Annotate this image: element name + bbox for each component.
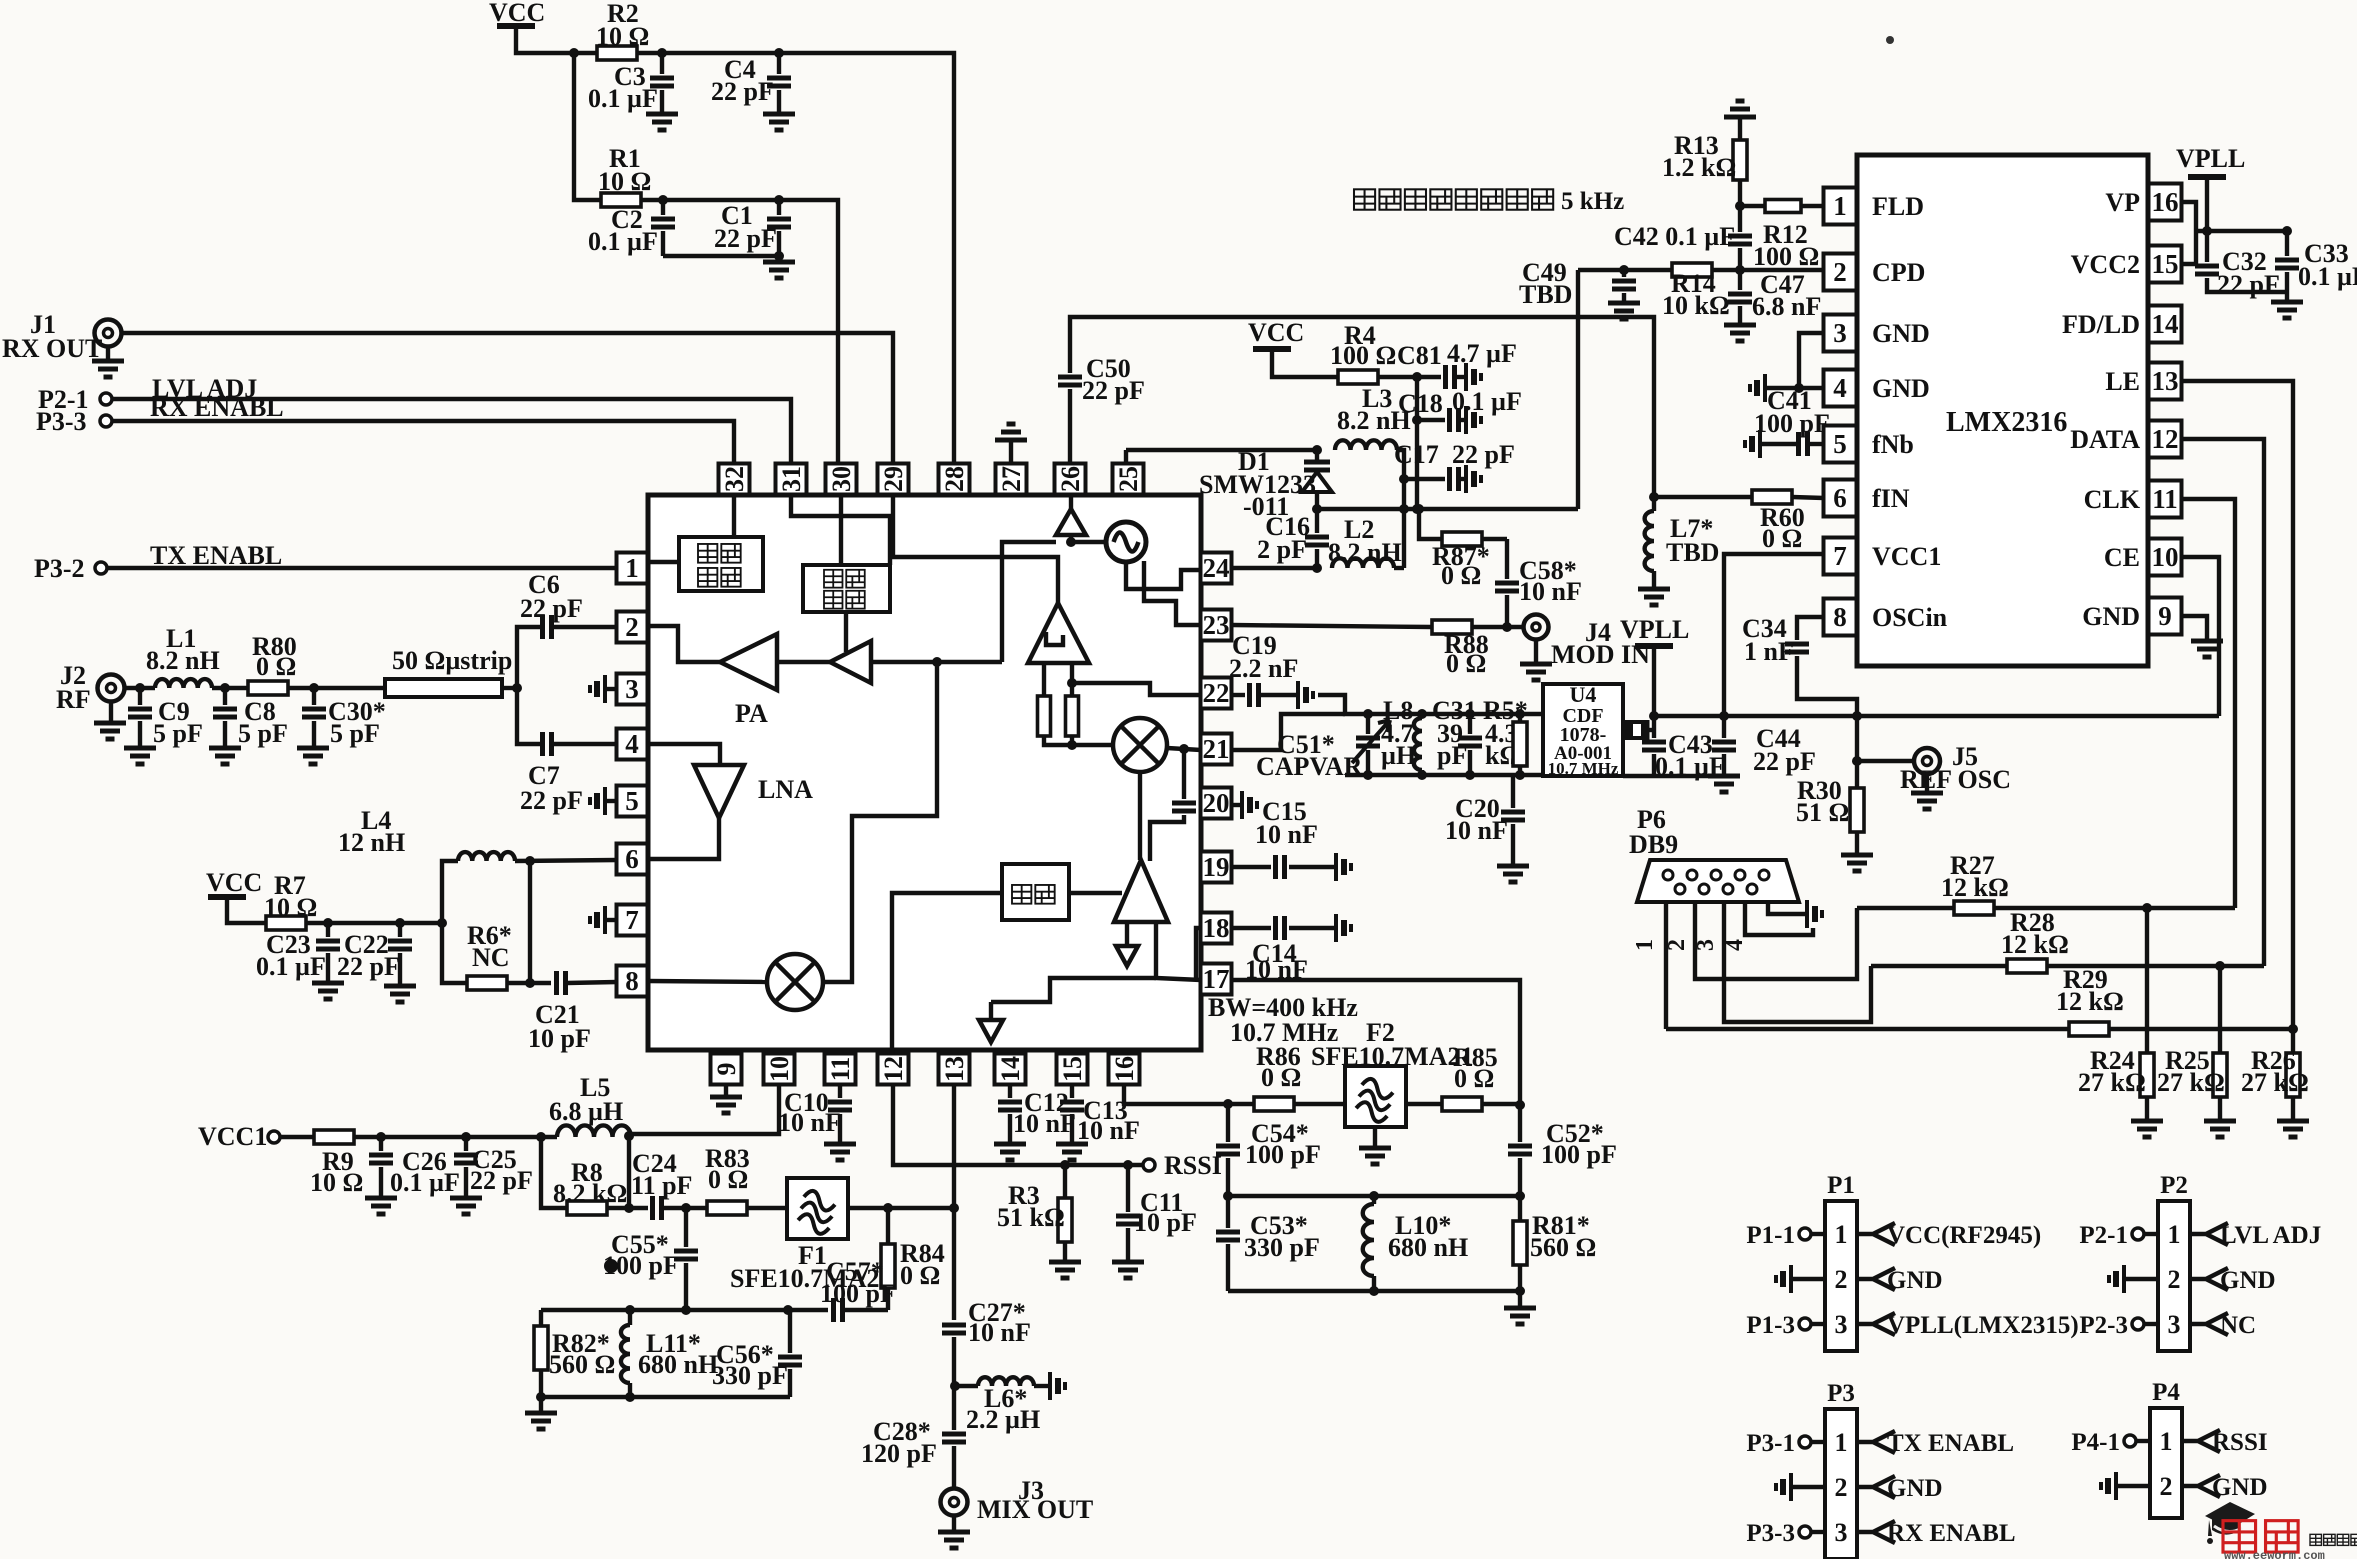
wire osc to pin24 [1126, 562, 1201, 589]
wire C56 lower lead [788, 1369, 792, 1397]
pin 11 LMX2316 [2149, 481, 2182, 518]
svg-text:5 pF: 5 pF [330, 719, 380, 748]
junction R8 right [624, 1203, 634, 1213]
wire pin3 bypass stub [607, 687, 617, 691]
wire C43-C44 bottoms [1623, 774, 1724, 778]
svg-text:22 pF: 22 pF [1082, 376, 1145, 405]
wire L4 left leg down [442, 923, 467, 983]
wire rail to VCC1 pin7 [1724, 554, 1824, 716]
junction D1 top [1312, 445, 1322, 455]
wire pin30 to gain box [839, 495, 843, 565]
svg-text:6: 6 [625, 844, 639, 874]
ground C22 [384, 986, 416, 1002]
wire pin2 to PA [648, 626, 720, 662]
svg-text:C17: C17 [1394, 440, 1439, 469]
junction rail C44 [1719, 711, 1729, 721]
wire R29 row left [1666, 1027, 2068, 1031]
diode D1 varactor [1304, 462, 1330, 470]
resistor R9 [314, 1130, 354, 1144]
bypass cap C7 pin5 [603, 787, 607, 815]
svg-text:100 Ω: 100 Ω [1753, 242, 1819, 271]
svg-text:3: 3 [625, 674, 639, 704]
resistor R28 [2007, 959, 2047, 973]
pin 11 RF2945 [825, 1054, 856, 1085]
svg-text:0 Ω: 0 Ω [900, 1261, 940, 1290]
amplifier limiter [1028, 603, 1089, 663]
svg-text:NC: NC [2220, 1312, 2256, 1339]
wire P4 gnd row [2118, 1484, 2150, 1488]
junction tank R5 [1515, 709, 1525, 719]
svg-text:2: 2 [1664, 939, 1690, 951]
resistor R25 [2213, 1053, 2227, 1097]
svg-text:www.eeworm.com: www.eeworm.com [2224, 1549, 2325, 1559]
wire R28 row right [2048, 964, 2264, 968]
ground C13 [1056, 1144, 1088, 1160]
resistor R85 [1442, 1097, 1482, 1111]
svg-text:P4: P4 [2152, 1379, 2180, 1406]
svg-text:10 kΩ: 10 kΩ [1662, 291, 1730, 320]
wire C2-C1 bottoms [663, 256, 779, 262]
junction R6 right [525, 978, 535, 988]
junction C49 [1619, 265, 1629, 275]
bypass cap pin22 [1296, 681, 1300, 709]
resistor R30 [1850, 788, 1864, 832]
svg-text:P4-1: P4-1 [2071, 1429, 2120, 1456]
wire L10 lower lead [1372, 1276, 1376, 1291]
svg-text:9: 9 [712, 1063, 741, 1076]
svg-text:1: 1 [2160, 1427, 2173, 1456]
svg-text:GND: GND [1887, 1475, 1943, 1502]
junction pin3 pin4 [1794, 383, 1804, 393]
wire tank gnd stub [1518, 1291, 1522, 1308]
resistor R2 [597, 46, 637, 60]
capacitor C53* [1216, 1232, 1240, 1240]
junction C30 top [309, 683, 319, 693]
connector P4 box [2150, 1408, 2182, 1518]
wire cap to pin4 [553, 742, 617, 746]
resistor R8 [567, 1201, 607, 1215]
wire R6 to C21 [507, 981, 551, 985]
wire P2 row1 [2144, 1232, 2158, 1236]
wire C51 lower lead [1366, 750, 1370, 775]
wire node to pin4 cap [517, 688, 541, 744]
wire R26 lower lead [2291, 1097, 2295, 1121]
capacitor C55* [674, 1251, 698, 1259]
svg-text:LMX2316: LMX2316 [1946, 407, 2067, 438]
wire fIN to R60 [1654, 495, 1752, 499]
pin 10 LMX2316 [2149, 539, 2182, 576]
svg-text:CE: CE [2104, 543, 2140, 572]
wire C58 lead [1505, 595, 1509, 627]
junction tank L8 [1417, 709, 1427, 719]
junction tankb R5 [1515, 770, 1525, 780]
svg-text:10 pF: 10 pF [528, 1024, 591, 1053]
svg-text:100 Ω: 100 Ω [1330, 341, 1396, 370]
pin 27 RF2945 [996, 464, 1027, 495]
junction C23 top [323, 918, 333, 928]
crystal U4 box [1543, 684, 1623, 776]
capacitor C33 [2275, 260, 2299, 268]
bypass P2 gnd [2122, 1265, 2126, 1293]
pin 3 LMX2316 [1824, 315, 1857, 352]
inductor L10* [1363, 1204, 1374, 1276]
gain control text1 [824, 570, 842, 588]
wire DB9 pin4 link [1745, 902, 1813, 935]
wire tank bottom row [1228, 1289, 1520, 1293]
amplifier TX driver [830, 641, 871, 683]
svg-text:10 nF: 10 nF [1519, 577, 1582, 606]
DB9 pin circle top 5 [1759, 870, 1769, 880]
crystal U4 symbol [1627, 720, 1647, 740]
capacitor C19 [1250, 683, 1259, 707]
wire VPLL3 stub [2205, 177, 2209, 231]
svg-text:5 pF: 5 pF [238, 719, 288, 748]
wire CLK net [2181, 499, 2235, 908]
wire L7 top stub [1652, 497, 1656, 511]
svg-text:RSSI: RSSI [1164, 1151, 1222, 1180]
wire U4 bottom link [1621, 774, 1625, 778]
amplifier LNA [694, 765, 744, 818]
svg-text:0 Ω: 0 Ω [1261, 1063, 1301, 1092]
P4 arrow 1 [2182, 1430, 2220, 1452]
svg-text:P1-1: P1-1 [1746, 1222, 1795, 1249]
wire pin22 to C19 [1232, 693, 1245, 697]
svg-text:NC: NC [472, 943, 510, 972]
wire C18 lead [1417, 418, 1445, 422]
inductor L1 [155, 679, 212, 688]
capacitor C17 [1450, 467, 1459, 491]
junction L4 left [437, 918, 447, 928]
pin 14 RF2945 [995, 1054, 1026, 1085]
svg-text:21: 21 [1203, 734, 1230, 764]
wire C6 to pin2 [553, 625, 617, 629]
capacitor C16 [1305, 537, 1329, 545]
wire C16 lower lead [1315, 549, 1319, 568]
svg-text:16: 16 [1110, 1056, 1139, 1082]
gain control box [803, 565, 890, 612]
wire RSSI tank top row [1228, 1194, 1520, 1198]
ground C26 [365, 1198, 397, 1214]
wire C57 to R84 [844, 1308, 888, 1312]
junction L5 right [624, 1131, 634, 1141]
wire L2 right leg [1394, 566, 1404, 570]
wire demod arrow stub [989, 1002, 993, 1020]
resistor R7 [266, 916, 306, 930]
inductor L8 [1414, 718, 1422, 770]
wire C49 lead [1622, 270, 1626, 277]
pin 31 RF2945 [776, 464, 807, 495]
pin 23 RF2945 [1201, 610, 1232, 641]
capacitor C25 [454, 1155, 478, 1163]
wire C26 lead [379, 1137, 383, 1151]
wire R24 lead [2145, 908, 2149, 1053]
wire C33 lower lead [2285, 272, 2289, 302]
ground C44 [1708, 776, 1740, 792]
svg-text:0.1 µF: 0.1 µF [390, 1168, 460, 1197]
wire C33 lead [2285, 231, 2289, 256]
junction J5 R30 [1852, 756, 1862, 766]
capacitor C44 [1712, 742, 1736, 750]
wire pin16R link [2181, 202, 2196, 264]
wire L3 row [1126, 448, 1317, 452]
svg-text:P3-2: P3-2 [34, 554, 85, 583]
pin 8 LMX2316 [1824, 599, 1857, 636]
svg-text:3: 3 [1835, 1518, 1848, 1547]
wire IFtank gnd stub [539, 1397, 543, 1413]
inductor L4 [458, 852, 515, 861]
wire L8 lower lead [1420, 770, 1424, 775]
junction C9 top [135, 683, 145, 693]
svg-text:120 pF: 120 pF [861, 1439, 937, 1468]
pin 5 RF2945 [617, 786, 648, 817]
junction R24 tap [2142, 903, 2152, 913]
wire R81 lead [1518, 1196, 1522, 1221]
junction C18 tap [1412, 415, 1422, 425]
svg-text:8: 8 [1833, 602, 1847, 632]
inductor L7* [1645, 511, 1654, 571]
svg-text:10 nF: 10 nF [1445, 816, 1508, 845]
junction C1 top [774, 195, 784, 205]
capacitor C5 pin4 [543, 732, 552, 756]
wire C49 lower lead [1622, 293, 1626, 303]
capacitor C47 [1728, 294, 1752, 302]
svg-text:CPD: CPD [1872, 258, 1925, 287]
resistor bias right [1066, 696, 1079, 736]
ground arrow IF amp [1116, 946, 1138, 966]
bypass cap L6 [1048, 1372, 1052, 1400]
wire L5 to pin10 node [628, 1134, 631, 1137]
wire IF amp out [1156, 922, 1201, 980]
ground C3 [646, 114, 678, 130]
svg-text:VCC(RF2945): VCC(RF2945) [1887, 1222, 2041, 1249]
wire R13 gnd stub [1738, 117, 1742, 140]
svg-text:10 pF: 10 pF [1134, 1208, 1197, 1237]
wire pin31 to gain box [791, 495, 890, 565]
wire pin11 C10 lead [838, 1085, 842, 1098]
junction C3 top [657, 48, 667, 58]
wire pin13 down [952, 1085, 956, 1320]
wire LVL ADJ to pin31 [112, 399, 791, 464]
svg-text:RX OUT: RX OUT [2, 334, 102, 363]
wire VCC3 to R4 [1272, 349, 1338, 377]
pin 13 RF2945 [939, 1054, 970, 1085]
DB9 pin circle bottom 4 [1747, 884, 1757, 894]
svg-text:28: 28 [940, 466, 969, 492]
wire C27 to L6 [952, 1337, 956, 1430]
svg-text:22 pF: 22 pF [520, 786, 583, 815]
IC U2 LMX2316 body [1857, 155, 2148, 666]
wire P3 row3 [1811, 1530, 1825, 1534]
DB9 pin circle bottom 1 [1675, 884, 1685, 894]
svg-text:10 Ω: 10 Ω [310, 1168, 363, 1197]
capacitor C49 [1612, 281, 1636, 289]
terminal P4-1 [2124, 1435, 2136, 1447]
wire IF amp gnd stub [1125, 922, 1129, 946]
artifact dot [1886, 36, 1894, 44]
wire TX ENABL to pin1 [107, 566, 617, 570]
wire R27 row left [1857, 906, 1953, 910]
pin 22 RF2945 [1201, 678, 1232, 709]
wire C47 lower lead [1738, 306, 1742, 325]
pin 26 RF2945 [1055, 464, 1086, 495]
svg-text:5: 5 [1833, 429, 1847, 459]
junction VCO buffer [1066, 537, 1076, 547]
wire C4 lower lead [777, 90, 781, 114]
svg-text:U4: U4 [1570, 682, 1597, 707]
connector J3 MIX OUT [941, 1489, 968, 1516]
svg-text:560 Ω: 560 Ω [1530, 1233, 1596, 1262]
capacitor C2 [651, 219, 675, 227]
svg-text:4: 4 [1722, 939, 1748, 951]
bypass DB9 shield [1805, 900, 1809, 928]
ground R26 [2277, 1121, 2309, 1137]
wire R29 row right [2110, 1027, 2293, 1031]
junction tank TM [1369, 1191, 1379, 1201]
resistor R86 [1254, 1097, 1294, 1111]
junction pin13 row [949, 1203, 959, 1213]
wire pin17 to C52 [1232, 980, 1520, 1105]
wire DB9 p3 link [1724, 902, 1871, 1022]
ground J3 [938, 1532, 970, 1548]
capacitor C54* [1216, 1146, 1240, 1154]
capacitor C81 [1446, 365, 1455, 389]
wire C43 lead [1652, 716, 1656, 738]
pin 15 LMX2316 [2149, 246, 2182, 283]
svg-text:10 Ω: 10 Ω [598, 167, 651, 196]
pin 24 RF2945 [1201, 553, 1232, 584]
ground C10 [824, 1144, 856, 1160]
resistor R5* [1513, 722, 1527, 766]
logic control box [679, 537, 763, 591]
capacitor C56* [778, 1357, 802, 1365]
svg-text:GND: GND [2220, 1267, 2276, 1294]
wire P2 row3 [2144, 1322, 2158, 1326]
wire C56 lead [788, 1310, 792, 1353]
pin 9 RF2945 [711, 1054, 742, 1085]
wire DB9 pin5 link [1768, 902, 1805, 914]
junction L6 [950, 1381, 960, 1391]
wire J1 to pin29 [122, 333, 893, 464]
wire R7 to L4 [306, 921, 442, 925]
ground C47 [1724, 325, 1756, 341]
svg-text:TX ENABL: TX ENABL [1887, 1430, 2014, 1457]
svg-text:2.2 nF: 2.2 nF [1229, 654, 1298, 683]
wire pin7 bypass stub [607, 918, 617, 922]
wire pin18 cap to bypass [1289, 926, 1334, 930]
wire R5 lead [1518, 714, 1522, 722]
junction C32 [2202, 226, 2212, 236]
wire C1 lower lead [777, 231, 781, 256]
svg-text:10 nF: 10 nF [1245, 955, 1308, 984]
junction R3 top [1060, 1160, 1070, 1170]
svg-text:330 pF: 330 pF [712, 1361, 788, 1390]
resistor R80 [248, 681, 288, 695]
svg-text:22 pF: 22 pF [470, 1166, 533, 1195]
wire C81 to bypass [1456, 375, 1464, 379]
wire C18 to bypass [1460, 418, 1464, 422]
svg-text:0 Ω: 0 Ω [1446, 649, 1486, 678]
capacitor C11 [1116, 1216, 1140, 1224]
VPLL power bar 2 [1635, 643, 1673, 649]
pin 29 RF2945 [878, 464, 909, 495]
DB9 pin circle bottom 3 [1723, 884, 1733, 894]
terminal VCC1 [268, 1131, 280, 1143]
pin 28 RF2945 [939, 464, 970, 495]
svg-text:P3-3: P3-3 [36, 407, 87, 436]
svg-text:22 pF: 22 pF [1753, 747, 1816, 776]
svg-text:0 Ω: 0 Ω [1762, 524, 1802, 553]
junction tank TL [1223, 1191, 1233, 1201]
wire fNb row [1762, 442, 1797, 446]
wire pin23 to osc [1144, 561, 1201, 625]
ground R3 [1049, 1262, 1081, 1278]
wire J2 ground stub [109, 702, 113, 723]
pin 12 RF2945 [878, 1054, 909, 1085]
filter F1 [787, 1178, 848, 1239]
junction IFtank TM2 [625, 1305, 635, 1315]
junction C11 top [1123, 1160, 1133, 1170]
ground C23 [312, 983, 344, 999]
svg-text:1.2 kΩ: 1.2 kΩ [1662, 153, 1736, 182]
capacitor C18 [1450, 408, 1459, 432]
svg-text:LNA: LNA [758, 775, 813, 804]
svg-text:P1: P1 [1827, 1172, 1855, 1199]
svg-text:13: 13 [2152, 366, 2179, 396]
svg-text:C18: C18 [1398, 389, 1443, 418]
wire VP row [2196, 229, 2287, 233]
C55 artifact dot [604, 1259, 618, 1273]
wire mixer2 bottom to IF amp [1138, 772, 1142, 860]
P3 arrow 2 [1857, 1476, 1895, 1498]
resistor R14 [1672, 263, 1712, 277]
wire C21 to pin8 [567, 982, 617, 983]
capacitor C24 [653, 1196, 662, 1220]
wire pin14 C12 lead [1008, 1085, 1012, 1098]
pin 14 LMX2316 [2149, 306, 2182, 343]
resistor R4 [1338, 370, 1378, 384]
svg-text:5: 5 [625, 786, 639, 816]
svg-text:RF: RF [56, 685, 91, 714]
terminal P1-1 [1799, 1228, 1811, 1240]
pin 32 RF2945 [719, 464, 750, 495]
junction tank BM [1369, 1286, 1379, 1296]
wire R88 to J4 [1472, 625, 1523, 629]
svg-text:VPLL(LMX2315): VPLL(LMX2315) [1887, 1312, 2079, 1339]
resistor R1 [601, 193, 641, 207]
wire C9 lower lead [138, 721, 142, 748]
wire C17 to bypass [1460, 477, 1464, 481]
pin 4 LMX2316 [1824, 370, 1857, 407]
wire crystal to VPLL rail [1647, 728, 1654, 732]
wire L5 left down [541, 1137, 567, 1208]
pin 1 LMX2316 [1824, 188, 1857, 225]
svg-text:VCC: VCC [206, 868, 262, 897]
wire L11 lead [628, 1310, 632, 1325]
pin 4 RF2945 [617, 729, 648, 760]
svg-text:CLK: CLK [2084, 485, 2141, 514]
wire gain box to amp [844, 612, 848, 652]
svg-text:5 kHz: 5 kHz [1561, 188, 1624, 215]
svg-text:12 nH: 12 nH [338, 828, 405, 857]
resistor R82* [534, 1326, 548, 1370]
wire pin1 to logic box [648, 560, 679, 564]
wire VCC1 to R9 [280, 1135, 314, 1139]
svg-text:MIX OUT: MIX OUT [977, 1495, 1093, 1524]
wire L6 to bypass [1034, 1384, 1048, 1388]
wire C19 to bypass [1260, 693, 1296, 697]
svg-text:FD/LD: FD/LD [2062, 310, 2140, 339]
watermark cap icon [2205, 1502, 2255, 1544]
